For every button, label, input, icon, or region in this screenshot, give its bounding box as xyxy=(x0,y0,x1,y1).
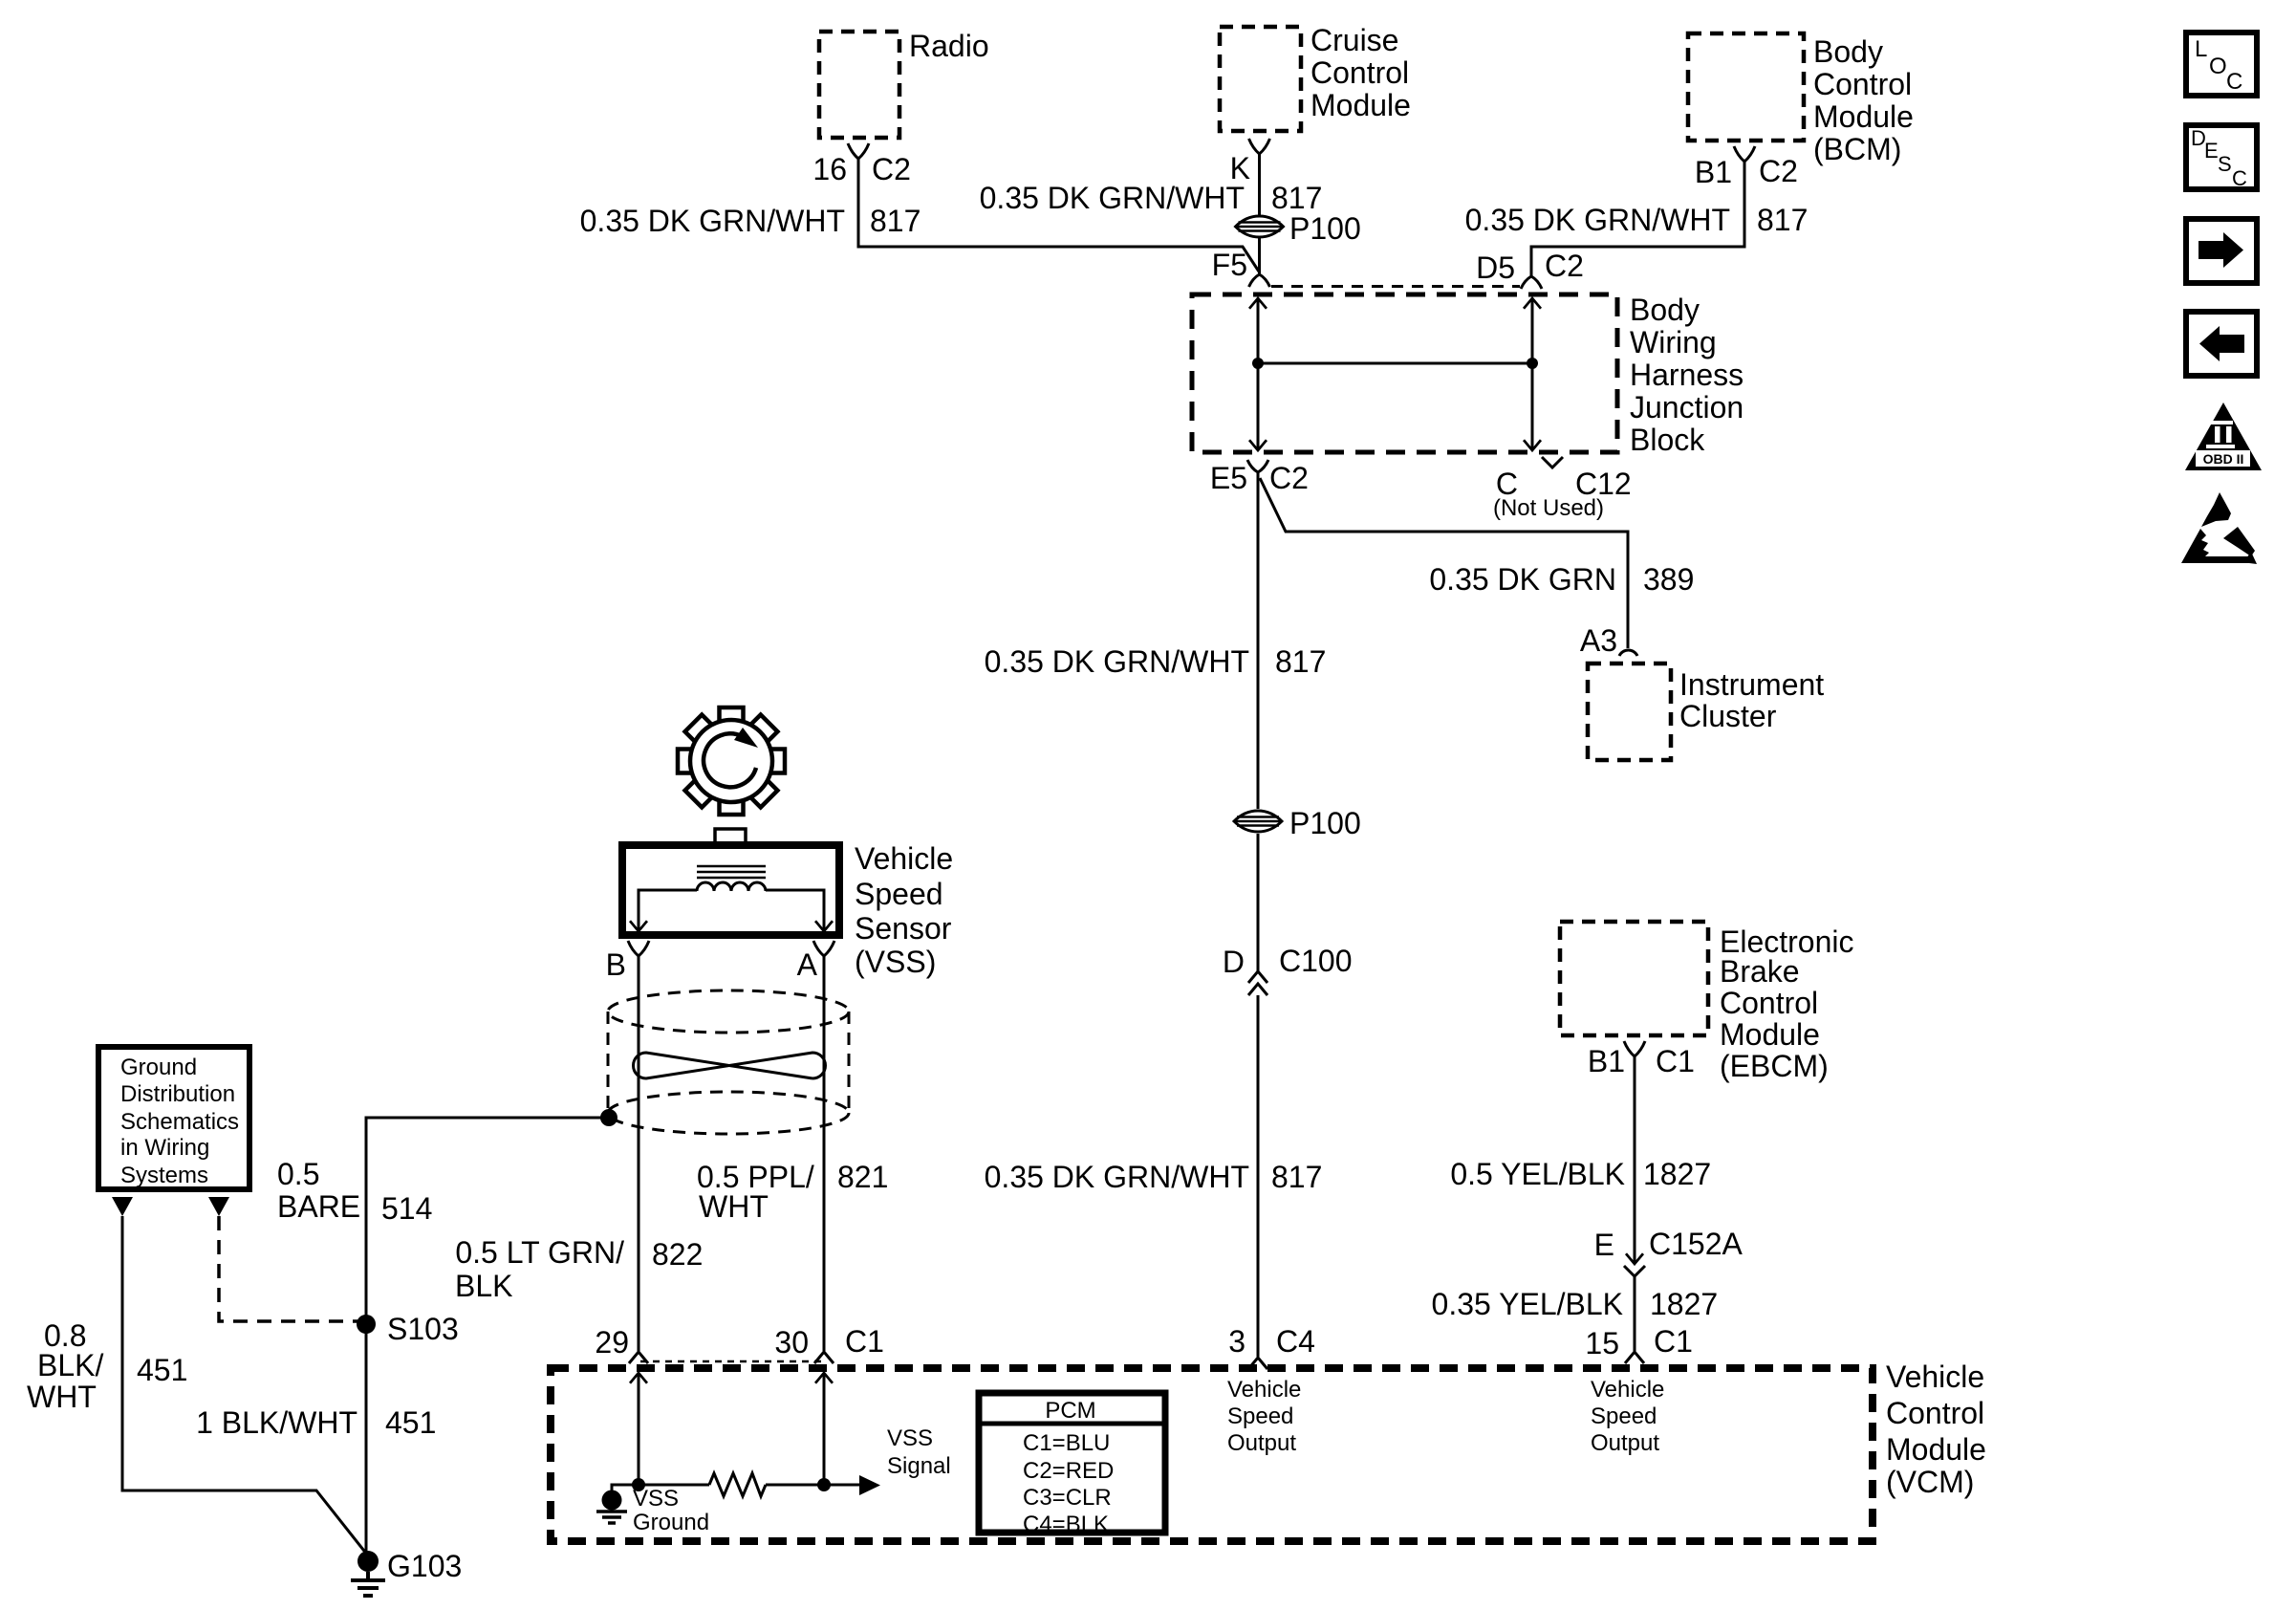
arrow down (block left bottom) xyxy=(1249,440,1267,450)
svg-text:O: O xyxy=(2209,54,2227,79)
svg-text:0.35 DK GRN/WHT: 0.35 DK GRN/WHT xyxy=(980,181,1245,215)
svg-text:E: E xyxy=(2204,139,2219,163)
svg-text:Signal: Signal xyxy=(887,1453,951,1479)
grommet P100 (upper) xyxy=(1236,216,1284,237)
wire P100 to F5 xyxy=(1258,237,1261,273)
wire 1827 from EBCM xyxy=(1634,1056,1636,1264)
wire C100 down to pin 3 xyxy=(1257,995,1260,1357)
svg-text:C2: C2 xyxy=(1545,249,1584,283)
svg-text:817: 817 xyxy=(1271,1160,1322,1194)
svg-text:817: 817 xyxy=(1271,181,1322,215)
svg-text:E: E xyxy=(1594,1228,1614,1262)
svg-text:Ground: Ground xyxy=(120,1055,197,1080)
svg-text:0.35 YEL/BLK: 0.35 YEL/BLK xyxy=(1432,1287,1623,1321)
connector fork D5 xyxy=(1521,276,1542,289)
svg-text:Radio: Radio xyxy=(909,29,989,63)
svg-text:Distribution: Distribution xyxy=(120,1081,235,1107)
svg-text:C: C xyxy=(2232,166,2247,190)
svg-text:Junction: Junction xyxy=(1630,390,1744,424)
arrowhead VSS Signal xyxy=(859,1475,880,1495)
svg-text:E5: E5 xyxy=(1210,461,1247,495)
module Instrument Cluster (dashed box) xyxy=(1588,664,1671,760)
ground VSS Ground dot and symbol xyxy=(602,1490,622,1511)
svg-text:Harness: Harness xyxy=(1630,358,1744,392)
svg-text:C100: C100 xyxy=(1279,944,1353,978)
svg-text:B: B xyxy=(606,947,626,982)
svg-text:OBD II: OBD II xyxy=(2203,451,2244,467)
twist symbol (bow tie) xyxy=(634,1053,826,1078)
svg-text:VSS: VSS xyxy=(633,1486,679,1512)
wire 451 0.8 BLK/WHT to G103 xyxy=(122,1216,367,1555)
svg-text:C2: C2 xyxy=(1759,154,1798,188)
svg-text:0.5 YEL/BLK: 0.5 YEL/BLK xyxy=(1450,1157,1625,1191)
svg-text:Output: Output xyxy=(1227,1430,1296,1456)
internal wire VSS ground to resistor xyxy=(612,1485,709,1490)
svg-text:(VCM): (VCM) xyxy=(1886,1465,1974,1499)
svg-text:A3: A3 xyxy=(1580,623,1617,658)
svg-text:WHT: WHT xyxy=(699,1189,769,1224)
wire 821 from VSS A to pin 30 xyxy=(823,956,826,1351)
arrowhead to ground schematic left xyxy=(112,1197,133,1216)
svg-text:30: 30 xyxy=(774,1325,809,1360)
VSS coil lead B with arrow xyxy=(639,890,697,930)
connector cup pin B1 C2 at BCM xyxy=(1734,146,1755,162)
svg-text:(EBCM): (EBCM) xyxy=(1720,1049,1829,1083)
svg-text:WHT: WHT xyxy=(27,1380,97,1414)
svg-text:Control: Control xyxy=(1813,67,1912,101)
svg-text:C: C xyxy=(2226,69,2242,95)
svg-text:1827: 1827 xyxy=(1650,1287,1718,1321)
grommet P100 (lower) xyxy=(1234,811,1282,832)
svg-text:S: S xyxy=(2218,152,2232,176)
svg-text:L: L xyxy=(2195,36,2207,62)
arrow down (block right bottom) xyxy=(1524,440,1541,450)
shield drain junction dot xyxy=(600,1109,617,1126)
connector fork F5 xyxy=(1249,274,1270,287)
module Cruise Control Module (dashed box) xyxy=(1220,27,1301,131)
svg-text:BARE: BARE xyxy=(277,1189,360,1224)
svg-text:Block: Block xyxy=(1630,423,1705,457)
svg-text:Systems: Systems xyxy=(120,1163,208,1188)
svg-text:C1=BLU: C1=BLU xyxy=(1023,1430,1110,1456)
module Electronic Brake Control Module (dashed box) xyxy=(1560,922,1708,1035)
wire 817 from E5 down to P100 xyxy=(1257,472,1260,809)
svg-text:C152A: C152A xyxy=(1649,1227,1744,1261)
svg-text:Vehicle: Vehicle xyxy=(1886,1360,1984,1394)
svg-text:C3=CLR: C3=CLR xyxy=(1023,1485,1112,1511)
svg-text:29: 29 xyxy=(595,1325,629,1360)
svg-text:0.35 DK GRN/WHT: 0.35 DK GRN/WHT xyxy=(580,204,845,238)
connector cup pin 16 C2 at Radio xyxy=(848,143,869,159)
wire 817 from Radio to F5 xyxy=(858,159,1259,272)
VSS core lines xyxy=(697,866,766,878)
pin chevron 3 xyxy=(1248,1358,1267,1369)
svg-text:D5: D5 xyxy=(1476,250,1515,285)
svg-text:821: 821 xyxy=(837,1160,888,1194)
junction dot right xyxy=(1527,358,1538,369)
svg-text:Vehicle: Vehicle xyxy=(1591,1377,1664,1403)
junction dot pin 30 branch xyxy=(817,1478,831,1491)
icon back arrow box xyxy=(2186,312,2257,376)
connector C152A arrow and chevron xyxy=(1626,1253,1643,1264)
VCM internal arrow pin 29 xyxy=(630,1373,647,1383)
svg-text:514: 514 xyxy=(381,1191,432,1226)
icon DESC box xyxy=(2186,125,2257,189)
svg-text:(VSS): (VSS) xyxy=(855,945,936,979)
svg-text:451: 451 xyxy=(137,1353,187,1387)
junction dot pin 29 branch xyxy=(632,1478,645,1491)
svg-text:16: 16 xyxy=(812,152,847,186)
svg-text:451: 451 xyxy=(385,1405,436,1440)
arrowhead to ground schematic right xyxy=(208,1197,229,1216)
junction block Body Wiring Harness Junction Block (dashed box) xyxy=(1192,294,1617,452)
branch wire 389 to instrument cluster xyxy=(1260,478,1628,648)
svg-text:Body: Body xyxy=(1630,293,1700,327)
connector cup pin B1 C1 at EBCM xyxy=(1624,1041,1645,1056)
connector fork E5 xyxy=(1247,460,1268,472)
svg-text:Vehicle: Vehicle xyxy=(1227,1377,1301,1403)
pin chevron 15 xyxy=(1625,1352,1644,1363)
svg-text:Control: Control xyxy=(1310,55,1409,90)
svg-text:S103: S103 xyxy=(387,1312,459,1346)
svg-text:Schematics: Schematics xyxy=(120,1109,239,1135)
VSS coil lead A with arrow xyxy=(766,890,824,930)
svg-text:Speed: Speed xyxy=(1227,1403,1293,1429)
svg-text:C2: C2 xyxy=(872,152,911,186)
connector dome A3 xyxy=(1619,650,1637,656)
splice dot S103 xyxy=(357,1315,376,1334)
svg-text:0.35 DK GRN/WHT: 0.35 DK GRN/WHT xyxy=(985,1160,1249,1194)
svg-text:C4: C4 xyxy=(1276,1324,1315,1359)
module Radio (dashed box) xyxy=(819,32,899,138)
icon LOC box xyxy=(2186,33,2257,96)
svg-text:C2=RED: C2=RED xyxy=(1023,1458,1114,1484)
svg-text:C1: C1 xyxy=(1656,1044,1695,1078)
wire through junction block right xyxy=(1531,299,1534,449)
svg-text:Cruise: Cruise xyxy=(1310,23,1398,57)
svg-text:B1: B1 xyxy=(1588,1044,1625,1078)
svg-text:Vehicle: Vehicle xyxy=(855,841,953,876)
VSS connector tab xyxy=(715,829,746,845)
svg-text:817: 817 xyxy=(1275,644,1326,679)
gear wheel (speedometer drive) xyxy=(678,707,785,815)
wire 817 from BCM to D5 xyxy=(1531,162,1744,276)
svg-text:BLK/: BLK/ xyxy=(37,1348,103,1382)
wire resistor to VSS signal arrow xyxy=(766,1484,859,1487)
VCM internal arrow pin 30 xyxy=(815,1373,833,1383)
internal bus wire of junction block xyxy=(1258,362,1532,365)
svg-text:Brake: Brake xyxy=(1720,954,1800,989)
wire 817 Cruise to P100 xyxy=(1258,154,1261,216)
icon forward arrow box xyxy=(2186,219,2257,283)
svg-text:1 BLK/WHT: 1 BLK/WHT xyxy=(196,1405,357,1440)
svg-text:0.35 DK GRN/WHT: 0.35 DK GRN/WHT xyxy=(1465,203,1730,237)
svg-text:C1: C1 xyxy=(1654,1324,1693,1359)
wire through junction block left xyxy=(1257,299,1260,449)
connector cup pin K at Cruise xyxy=(1249,139,1270,154)
connector chevron C C12 not used xyxy=(1542,457,1563,468)
rotation arrow inside gear xyxy=(704,733,756,787)
svg-text:(Not Used): (Not Used) xyxy=(1493,495,1604,521)
icon OBD II triangle xyxy=(2185,402,2262,470)
svg-text:A: A xyxy=(797,947,818,982)
connector C100 double chevron D xyxy=(1248,971,1267,995)
svg-text:Ground: Ground xyxy=(633,1510,709,1535)
dashed wire 514 branch to S103 xyxy=(219,1216,357,1321)
pin chevron 29 xyxy=(629,1352,648,1363)
svg-text:P100: P100 xyxy=(1289,211,1361,246)
svg-text:G103: G103 xyxy=(387,1549,462,1583)
twisted pair shield (dashed cylinder) xyxy=(608,990,849,1033)
svg-text:3: 3 xyxy=(1228,1324,1245,1359)
connector line C1 pins 29-30 (fine dash) xyxy=(640,1360,823,1363)
svg-text:0.35 DK GRN/WHT: 0.35 DK GRN/WHT xyxy=(985,644,1249,679)
svg-text:Body: Body xyxy=(1813,34,1883,69)
svg-text:F5: F5 xyxy=(1212,248,1247,282)
svg-text:Module: Module xyxy=(1813,99,1914,134)
svg-text:C4=BLK: C4=BLK xyxy=(1023,1512,1109,1537)
wire P100 to C100 xyxy=(1257,834,1260,972)
icon ESD triangle xyxy=(2181,492,2257,564)
svg-text:B1: B1 xyxy=(1695,155,1732,189)
svg-text:0.35 DK GRN: 0.35 DK GRN xyxy=(1429,562,1616,597)
svg-text:BLK: BLK xyxy=(455,1269,512,1303)
svg-text:817: 817 xyxy=(870,204,921,238)
pin chevron 30 xyxy=(814,1352,834,1363)
PCM legend table xyxy=(979,1393,1165,1533)
svg-text:Module: Module xyxy=(1720,1017,1820,1052)
arrow up (block right top) xyxy=(1524,298,1541,309)
svg-text:D: D xyxy=(1223,945,1245,979)
junction dot left xyxy=(1252,358,1264,369)
svg-text:P100: P100 xyxy=(1289,806,1361,840)
VSS housing box xyxy=(622,845,839,935)
svg-text:822: 822 xyxy=(652,1237,703,1272)
svg-text:PCM: PCM xyxy=(1045,1398,1095,1424)
svg-text:C2: C2 xyxy=(1269,461,1309,495)
svg-text:Instrument: Instrument xyxy=(1679,667,1824,702)
resistor (VCM input) xyxy=(709,1473,766,1496)
connector cup pin B at VSS xyxy=(628,941,649,956)
svg-text:0.5: 0.5 xyxy=(277,1157,319,1191)
svg-text:Sensor: Sensor xyxy=(855,911,952,946)
svg-text:0.5 LT GRN/: 0.5 LT GRN/ xyxy=(455,1235,624,1270)
svg-text:Wiring: Wiring xyxy=(1630,325,1717,359)
ground G103 dot and symbol xyxy=(357,1551,379,1572)
svg-text:Cluster: Cluster xyxy=(1679,699,1777,733)
VSS coil xyxy=(697,882,766,891)
svg-text:1827: 1827 xyxy=(1643,1157,1711,1191)
svg-text:817: 817 xyxy=(1757,203,1808,237)
module Ground Distribution Schematics (solid box) xyxy=(98,1047,249,1189)
connector line C2 dashed F5 to D5 xyxy=(1271,285,1520,288)
svg-text:Control: Control xyxy=(1886,1396,1984,1430)
svg-text:15: 15 xyxy=(1585,1326,1619,1360)
svg-text:389: 389 xyxy=(1643,562,1694,597)
connector cup pin A at VSS xyxy=(813,941,834,956)
svg-text:Output: Output xyxy=(1591,1430,1659,1456)
svg-text:Speed: Speed xyxy=(1591,1403,1657,1429)
svg-text:in Wiring: in Wiring xyxy=(120,1135,209,1161)
module Body Control Module (dashed box) xyxy=(1688,33,1804,141)
svg-text:(BCM): (BCM) xyxy=(1813,132,1901,166)
arrow up (block left top) xyxy=(1249,298,1267,309)
svg-text:Speed: Speed xyxy=(855,877,943,911)
svg-text:Module: Module xyxy=(1886,1432,1986,1467)
wire C152A to pin 15 xyxy=(1634,1276,1636,1351)
wire 822 from VSS B to pin 29 xyxy=(638,956,640,1351)
shield drain wire to S103 and down to G103 xyxy=(366,1118,609,1553)
svg-text:Module: Module xyxy=(1310,88,1411,122)
module Vehicle Control Module (dashed box) xyxy=(551,1368,1873,1541)
svg-text:C1: C1 xyxy=(845,1324,884,1359)
svg-text:VSS: VSS xyxy=(887,1425,933,1451)
svg-text:Control: Control xyxy=(1720,986,1818,1020)
